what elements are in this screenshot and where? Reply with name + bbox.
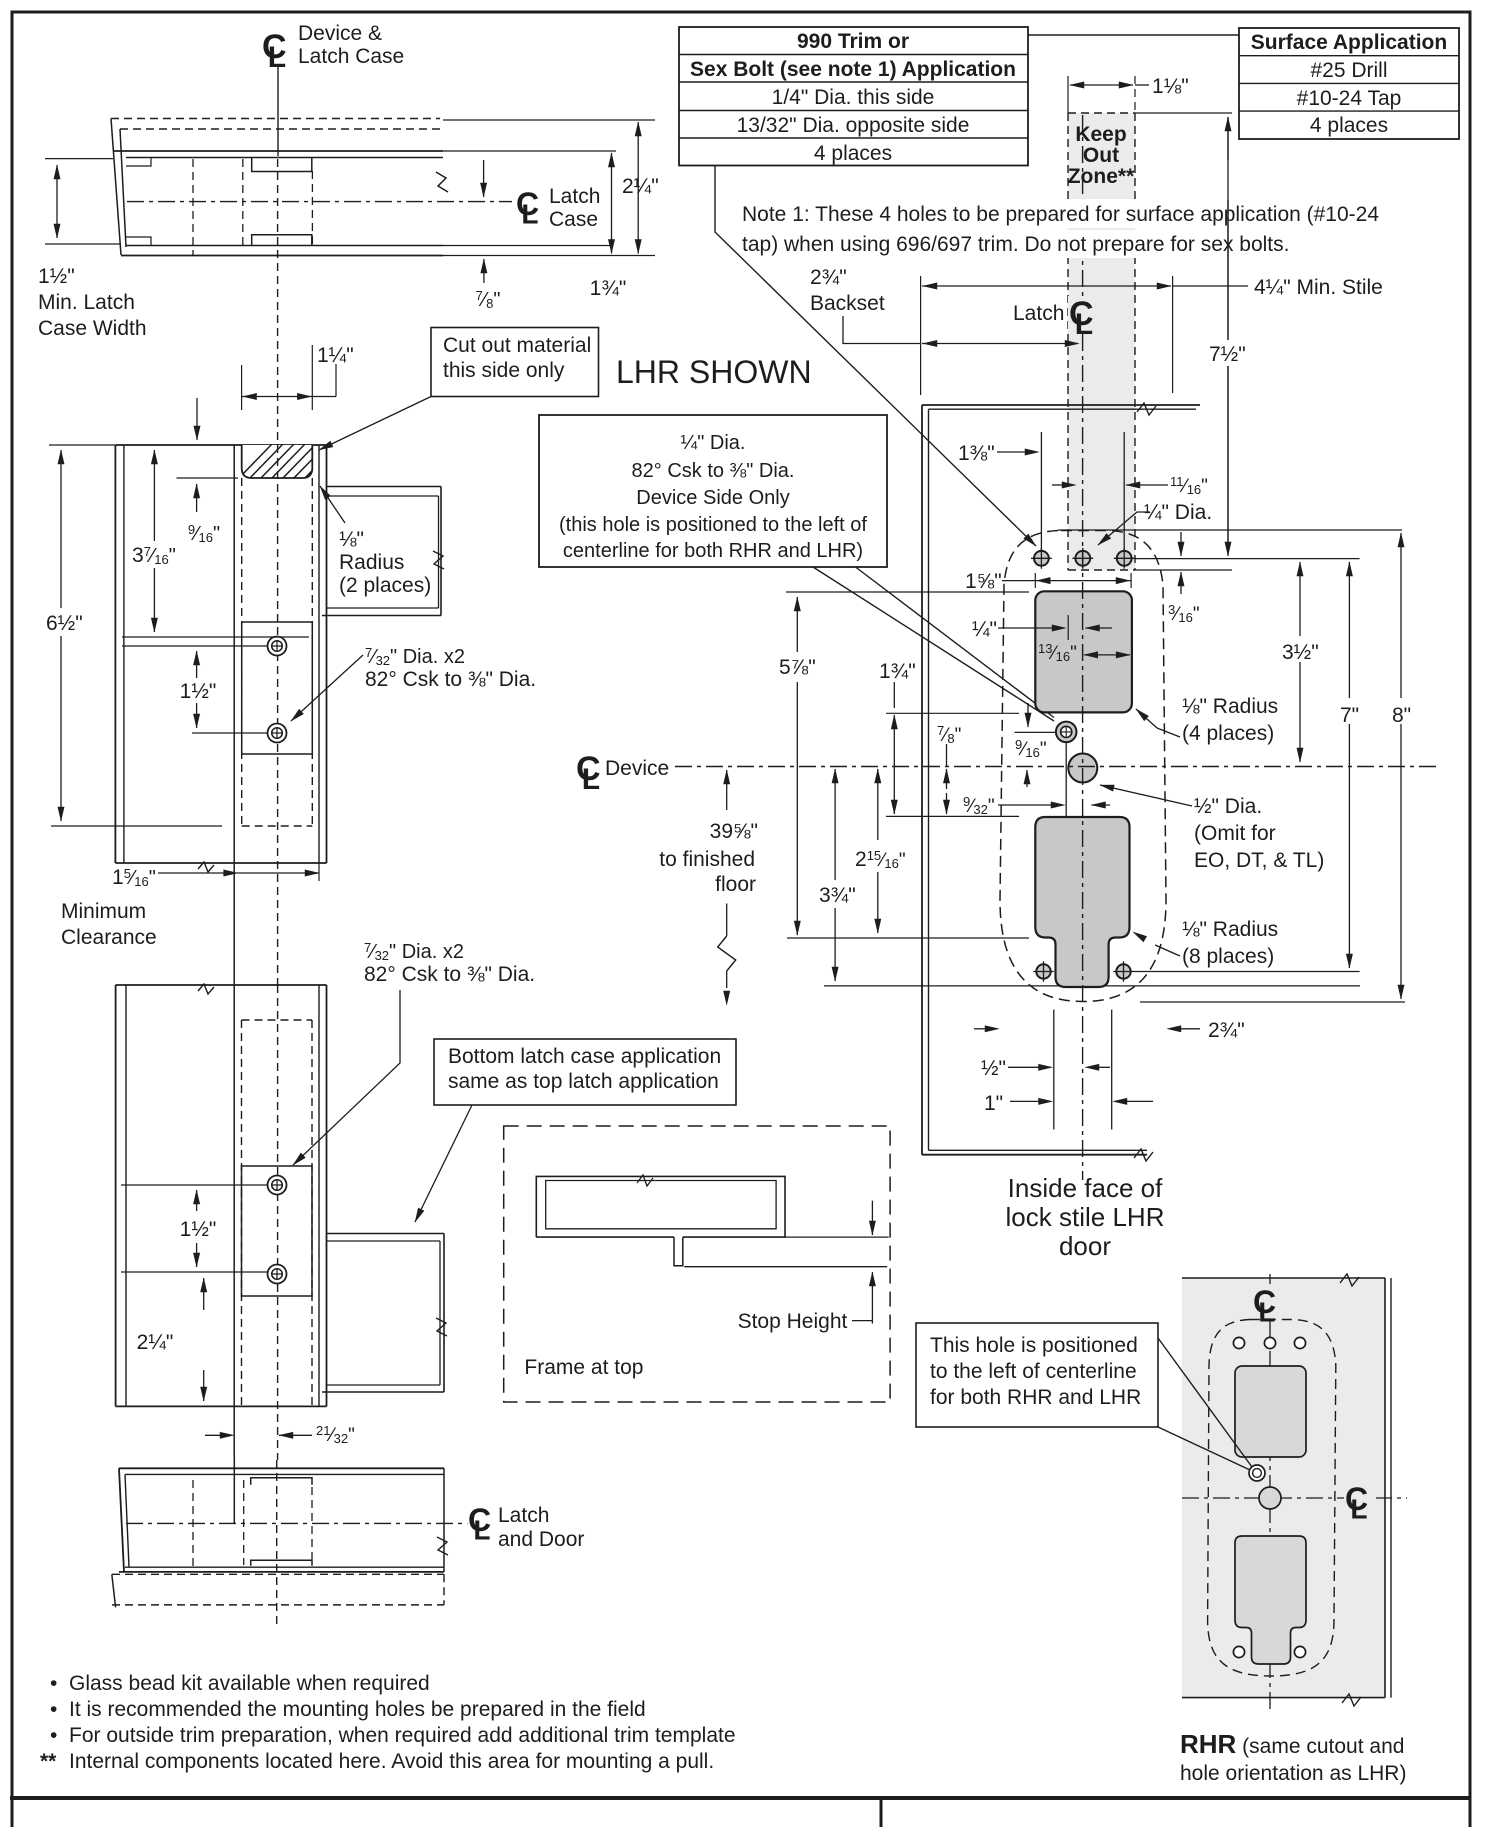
dim 2-15/16 — [877, 769, 879, 840]
svg-text:4 places: 4 places — [814, 142, 892, 165]
svg-text:13/32" Dia. opposite side: 13/32" Dia. opposite side — [737, 114, 970, 137]
dim 3/16 arrows — [1180, 532, 1182, 556]
svg-text:L: L — [521, 198, 538, 229]
bottom case solid body — [119, 1467, 444, 1469]
bottom case horizontal centerline — [126, 1522, 467, 1524]
dimension 1-1/2 door1 arrows — [196, 651, 198, 678]
door2 frame stop channel top lines — [327, 1233, 445, 1235]
stop height up arrow — [871, 1272, 873, 1324]
stop height reference line upper — [785, 1236, 889, 1238]
dimension 2-1/4 right — [637, 122, 639, 254]
door1 upper screw hole — [268, 637, 287, 656]
door2 inner face line — [233, 985, 235, 1456]
left extension lines for 1-1/2 width dim — [45, 158, 113, 160]
svg-text:⅛": ⅛" — [339, 528, 364, 551]
RHR lower pad T shape — [1235, 1536, 1306, 1664]
svg-text:L: L — [1075, 308, 1093, 341]
RHR vertical centerline — [1269, 1274, 1271, 1285]
top case vertical centerline dashed below — [277, 159, 279, 445]
line y938 (cutout bottom) — [787, 937, 1029, 939]
svg-text:centerline for both RHR and LH: centerline for both RHR and LHR) — [563, 540, 863, 562]
svg-text:(8 places): (8 places) — [1182, 945, 1274, 968]
svg-text:•: • — [50, 1724, 57, 1747]
label 3-3/4 — [812, 882, 860, 906]
svg-text:990 Trim or: 990 Trim or — [797, 30, 909, 53]
svg-text:Keep: Keep — [1075, 123, 1126, 146]
lower pad left screw hole — [1036, 964, 1050, 978]
9/16 up arrow — [1026, 770, 1028, 787]
top case break symbol right edge — [436, 172, 448, 192]
svg-text:#25 Drill: #25 Drill — [1310, 59, 1387, 82]
up arrow to case bottom (7/8 dim lower) — [483, 259, 485, 283]
svg-text:7⁄32" Dia. x2: 7⁄32" Dia. x2 — [364, 940, 464, 963]
extension line through upper hole — [122, 645, 267, 647]
frame stop channel bottom lines — [327, 607, 439, 609]
top mounting hole right — [1117, 551, 1132, 566]
svg-text:11⁄16": 11⁄16" — [1170, 474, 1208, 497]
Cut out material callout box — [431, 328, 599, 397]
extension line at dashed case bottom (6-1/2 ref) — [51, 825, 222, 827]
svg-text:**: ** — [40, 1750, 57, 1773]
leader 1/2 dia to big hole — [1100, 785, 1192, 806]
stile top break symbol — [1137, 403, 1156, 415]
dim 3-1/2 — [1299, 562, 1301, 600]
line y592 (5-7/8 top) — [786, 591, 1029, 593]
svg-text:9⁄32": 9⁄32" — [963, 794, 995, 817]
svg-text:9⁄16": 9⁄16" — [188, 522, 220, 545]
bottom case right edge — [443, 1468, 445, 1572]
arrow from 1/8 radius to cutout corner — [320, 486, 345, 523]
svg-text:Inside face of: Inside face of — [1008, 1173, 1163, 1203]
quarter dia callout box — [539, 415, 887, 567]
dim 1/2 arrows — [1008, 1066, 1040, 1068]
svg-text:1½": 1½" — [38, 265, 75, 288]
door2 upper screw hole — [268, 1176, 287, 1195]
svg-text:⅛" Radius: ⅛" Radius — [1182, 695, 1278, 718]
dimension 1-1/2 door2 arrows — [196, 1190, 198, 1211]
stile bottom break symbol — [1134, 1149, 1153, 1161]
keep out zone grey strip — [1068, 113, 1135, 570]
svg-text:7⁄8": 7⁄8" — [937, 723, 961, 746]
RHR CL symbol right — [1344, 1482, 1376, 1516]
frame bar outer outline — [536, 1176, 785, 1237]
svg-text:Case Width: Case Width — [38, 317, 147, 340]
svg-text:7⁄32" Dia. x2: 7⁄32" Dia. x2 — [365, 645, 465, 668]
lower pad right screw hole — [1116, 964, 1130, 978]
svg-text:1¾": 1¾" — [879, 660, 916, 683]
svg-text:L: L — [1350, 1493, 1367, 1524]
door2 left edge double lines — [115, 985, 117, 1406]
svg-text:Cut out material: Cut out material — [443, 334, 591, 357]
svg-text:this side only: this side only — [443, 359, 565, 382]
RHR center circle — [1259, 1487, 1281, 1509]
hatched cutout outline — [242, 445, 313, 478]
door1 inner face line — [233, 445, 235, 985]
bottom case latch bolt top rect — [251, 1478, 312, 1485]
dim 13/16 double arrow — [1084, 654, 1130, 656]
dim 1-5/8 extensions — [1034, 573, 1036, 588]
RHR ring hole — [1249, 1465, 1265, 1481]
svg-text:1/4" Dia. this side: 1/4" Dia. this side — [772, 86, 935, 109]
dim 11/16 arrows — [1052, 484, 1063, 486]
RHR top hole right — [1294, 1337, 1305, 1348]
leader 1/8 radius 8 places — [1155, 945, 1180, 956]
dim 1-1/8 arrows — [1070, 84, 1092, 86]
svg-text:3¾": 3¾" — [819, 884, 856, 907]
svg-text:Stop Height: Stop Height — [738, 1310, 848, 1333]
cutout bottom extension line — [177, 477, 239, 479]
top mounting hole center — [1075, 551, 1090, 566]
keep-out bottom extension line y570 — [1135, 569, 1232, 571]
svg-text:1¼": 1¼" — [317, 344, 354, 367]
dimension 3-7/16 arrows — [153, 450, 155, 541]
latch centerline symbol — [1068, 296, 1102, 334]
dim 7-1/2 line full — [1227, 117, 1229, 552]
svg-text:1⅛": 1⅛" — [1152, 75, 1189, 98]
door2 frame channel break — [436, 1318, 447, 1336]
svg-text:Latch Case: Latch Case — [298, 45, 404, 68]
svg-text:Sex Bolt (see note 1) Applicat: Sex Bolt (see note 1) Application — [690, 58, 1016, 81]
top case vertical centerline solid above case — [277, 64, 279, 156]
svg-text:15⁄16": 15⁄16" — [112, 866, 156, 889]
dim 2-3/4 bottom right arrow — [1167, 1028, 1180, 1030]
top case inner lip lines — [126, 157, 443, 159]
svg-text:lock stile LHR: lock stile LHR — [1006, 1202, 1165, 1232]
dimension 1-1/4 arrowheads — [243, 396, 254, 398]
note 1 text white backing bands — [740, 199, 1388, 228]
svg-text:It is recommended the mounting: It is recommended the mounting holes be … — [69, 1698, 646, 1721]
label 7-1/2 — [1206, 340, 1250, 366]
svg-text:L: L — [268, 41, 286, 74]
svg-text:Backset: Backset — [810, 292, 885, 315]
RHR panel top edge — [1182, 1277, 1385, 1279]
svg-text:Latch: Latch — [1013, 302, 1064, 325]
dim 7-1/2 arrows — [1227, 117, 1229, 160]
svg-text:(this hole is positioned to th: (this hole is positioned to the left of — [559, 514, 867, 536]
leader this hole upper — [1158, 1338, 1252, 1467]
svg-text:2¼": 2¼" — [622, 175, 659, 198]
door1 top edge — [115, 444, 326, 446]
dim 4-1/4 min stile line — [922, 285, 1171, 287]
door2 frame stop channel right edge — [443, 1234, 445, 1393]
door1 bottom edge with break — [115, 862, 326, 864]
1/4 dim extension segment — [1067, 615, 1069, 640]
bottom case break right — [437, 1537, 448, 1555]
keep out zone dashed borders — [1067, 113, 1069, 570]
svg-text:Note 1: These 4 holes to be pr: Note 1: These 4 holes to be prepared for… — [742, 203, 1379, 226]
svg-text:(Omit for: (Omit for — [1194, 822, 1276, 845]
svg-text:½" Dia.: ½" Dia. — [1194, 795, 1262, 818]
label 1-3/4 stile — [876, 658, 918, 682]
svg-text:Min. Latch: Min. Latch — [38, 291, 135, 314]
dim 1-5/16 arrows — [224, 872, 238, 874]
dim 39-5/8 lower line with break — [726, 904, 728, 937]
down arrow at 9/16 dim top — [196, 398, 198, 440]
bottom case hidden latch dashed verticals — [243, 1480, 245, 1565]
label 8 inch — [1388, 698, 1418, 724]
svg-text:1½": 1½" — [180, 1218, 217, 1241]
svg-text:Surface Application: Surface Application — [1251, 31, 1447, 54]
svg-text:same as top latch application: same as top latch application — [448, 1070, 719, 1093]
top mounting hole left — [1034, 551, 1049, 566]
latch vertical centerline dash-dot lower — [1082, 334, 1084, 1180]
top case horizontal centerline dash-dot — [127, 201, 512, 203]
svg-text:⅛" Radius: ⅛" Radius — [1182, 918, 1278, 941]
extension below door1 bottom — [318, 863, 320, 881]
dim 5-7/8 line — [796, 597, 798, 652]
svg-text:Clearance: Clearance — [61, 926, 157, 949]
svg-text:6½": 6½" — [46, 612, 83, 635]
top case inner corner tick bottom-left — [126, 237, 151, 245]
svg-text:Case: Case — [549, 208, 598, 231]
svg-text:1": 1" — [984, 1092, 1003, 1115]
svg-text:3⁄16": 3⁄16" — [1168, 602, 1200, 625]
9/16 down arrow — [1027, 703, 1029, 727]
device horizontal centerline dash-dot — [675, 766, 1440, 768]
svg-text:to finished: to finished — [659, 848, 755, 871]
line at 3-7/16 bottom — [122, 636, 309, 638]
svg-text:floor: floor — [715, 873, 756, 896]
dim 9/32 arrows — [998, 804, 1053, 806]
svg-text:1¾": 1¾" — [590, 277, 627, 300]
leader 1/4 dia to center hole — [1098, 512, 1150, 545]
dimension 1-3/4 right — [611, 153, 613, 254]
RHR lower screw hole right — [1294, 1646, 1305, 1657]
990 trim table frame — [679, 27, 1028, 166]
svg-text:7⁄8": 7⁄8" — [476, 288, 501, 311]
top reference line y530 — [1058, 529, 1402, 531]
top case hidden latch inner dashed vertical left — [192, 159, 194, 256]
svg-text:•: • — [50, 1698, 57, 1721]
door1 latch case dashed bottom — [242, 825, 313, 827]
RHR grey panel — [1182, 1278, 1385, 1698]
RHR panel bottom break — [1342, 1694, 1361, 1706]
lower grey pad T shape — [1035, 817, 1129, 987]
stop height reference line lower — [684, 1266, 887, 1268]
svg-text:Device: Device — [605, 757, 669, 780]
svg-text:¼": ¼" — [972, 618, 997, 641]
top case solid body rectangle — [113, 150, 443, 152]
top case latch bolt bottom rect — [252, 235, 312, 246]
svg-text:Internal components located he: Internal components located here. Avoid … — [69, 1750, 714, 1773]
svg-text:RHR (same cutout and: RHR (same cutout and — [1180, 1729, 1404, 1759]
label 3-1/2 — [1278, 636, 1324, 662]
svg-text:37⁄16": 37⁄16" — [132, 544, 176, 567]
svg-text:door: door — [1059, 1231, 1111, 1261]
bottom case vertical centerline dashed — [276, 1460, 278, 1626]
top case latch bolt top rect — [252, 158, 312, 172]
ring hole (1/4 dia csk) — [1056, 722, 1077, 743]
svg-text:EO, DT, & TL): EO, DT, & TL) — [1194, 849, 1324, 872]
svg-text:•: • — [50, 1672, 57, 1695]
svg-text:9⁄16": 9⁄16" — [1015, 737, 1047, 760]
svg-text:2¼": 2¼" — [137, 1331, 174, 1354]
svg-text:1⅜": 1⅜" — [958, 442, 995, 465]
door2 top break symbol — [198, 984, 214, 994]
svg-text:Bottom latch case application: Bottom latch case application — [448, 1045, 721, 1068]
connector line between tables — [1028, 34, 1239, 36]
RHR top hole left — [1233, 1337, 1244, 1348]
svg-text:This hole is positioned: This hole is positioned — [930, 1334, 1138, 1357]
svg-text:Device &: Device & — [298, 22, 382, 45]
svg-text:Latch: Latch — [549, 185, 600, 208]
dim 8 inch — [1400, 533, 1402, 595]
line y713 left of pad — [886, 712, 1019, 714]
RHR device dashed outline — [1208, 1320, 1336, 1677]
RHR lower screw hole left — [1233, 1646, 1244, 1657]
dim 1-1/8 extension lines — [1067, 76, 1069, 113]
svg-text:Latch: Latch — [498, 1504, 549, 1527]
door1 centerline dashed — [277, 445, 279, 985]
vertical line ring hole to pad zone — [1065, 742, 1067, 816]
dimension 1-1/2 min latch case width arrows — [56, 165, 58, 238]
leader from callout to ring hole upper — [856, 567, 1055, 718]
svg-text:215⁄16": 215⁄16" — [855, 848, 906, 871]
svg-text:Frame at top: Frame at top — [524, 1356, 643, 1379]
label 7 inch — [1336, 698, 1366, 724]
hole column line right — [1123, 432, 1125, 550]
leader from 990 table to left hole — [715, 166, 1036, 546]
ring hole extension line — [1015, 731, 1055, 733]
svg-text:and Door: and Door — [498, 1528, 584, 1551]
extension lines right of top case — [443, 119, 655, 121]
line at y113 right of keep-out — [1135, 112, 1232, 114]
svg-text:Out: Out — [1083, 144, 1119, 167]
backset elbow line — [843, 316, 920, 344]
svg-text:Radius: Radius — [339, 551, 404, 574]
door2 centerline dashed — [277, 985, 279, 1460]
leader from callout to ring hole lower — [813, 567, 1054, 721]
dim 39-5/8 up arrow — [726, 770, 728, 810]
door1 top dim extension to left — [49, 444, 115, 446]
svg-text:½": ½" — [981, 1057, 1006, 1080]
door2 top edge with break — [116, 984, 327, 986]
svg-text:LHR SHOWN: LHR SHOWN — [616, 354, 812, 390]
door1 mounting plate rect — [242, 622, 313, 754]
upper grey pad — [1035, 591, 1132, 712]
svg-text:tap) when using 696/697 trim.: tap) when using 696/697 trim. Do not pre… — [742, 233, 1289, 256]
svg-text:7": 7" — [1340, 704, 1359, 727]
latch vertical centerline dash-dot upper — [1082, 115, 1084, 296]
dim 1-3/8 arrow — [997, 451, 1026, 453]
hole row right line y558.6 — [1135, 558, 1360, 560]
door2 extension through lower hole — [121, 1271, 267, 1273]
svg-text:(4 places): (4 places) — [1182, 722, 1274, 745]
bottom title-block divider line — [10, 1796, 1471, 1800]
svg-text:Glass bead kit available when: Glass bead kit available when required — [69, 1672, 430, 1695]
bottom case latch bolt bottom rect — [251, 1560, 312, 1566]
title-block vertical divider — [880, 1798, 883, 1827]
door1 lower screw hole — [268, 724, 287, 743]
frame bar inner outline — [546, 1181, 776, 1229]
leader 7/32 to lower hole door1 — [291, 655, 363, 721]
dim 1-5/16 stem — [158, 872, 238, 874]
label 2-15/16 — [851, 845, 909, 870]
min stile extension lines — [920, 276, 922, 395]
svg-text:L: L — [473, 1514, 490, 1545]
surface application table frame — [1239, 28, 1459, 139]
door2 bottom edge — [116, 1405, 327, 1407]
leader 7/32 door2 to upper hole — [293, 990, 400, 1165]
dim 1-3/4 stile — [893, 680, 895, 708]
door2 mounting plate rect — [242, 1166, 313, 1296]
dim 2-3/4 backset arrows — [922, 343, 1078, 345]
svg-text:8": 8" — [1392, 704, 1411, 727]
svg-text:for both RHR and LHR: for both RHR and LHR — [930, 1386, 1141, 1409]
dim 7 inch — [1348, 562, 1350, 600]
dimension 6-1/2 arrows — [60, 450, 62, 608]
svg-text:2¾": 2¾" — [810, 266, 847, 289]
arrow from pad to 1/8 radius 4 places — [1136, 709, 1157, 728]
top case hidden latch dashed verticals — [242, 159, 244, 248]
svg-text:to the left of centerline: to the left of centerline — [930, 1360, 1137, 1383]
dim 7/8 stile — [946, 744, 948, 766]
This hole callout box — [916, 1323, 1158, 1427]
half/one inch vertical lines — [1053, 1010, 1055, 1130]
svg-text:4¼" Min. Stile: 4¼" Min. Stile — [1254, 276, 1383, 299]
svg-text:Zone**: Zone** — [1068, 165, 1135, 188]
stop height down arrow — [871, 1201, 873, 1235]
svg-text:#10-24 Tap: #10-24 Tap — [1297, 87, 1402, 110]
stile bottom edge lines — [922, 1154, 1147, 1156]
dimension 2-1/4 door2 arrows — [203, 1278, 205, 1310]
dimension 21/32 arrows — [205, 1434, 222, 1436]
top case outer dashed housing top lines — [111, 118, 440, 120]
hatch lines in cutout — [238, 444, 349, 479]
bottom case dashed lower housing — [112, 1574, 116, 1607]
frame stop tab — [674, 1237, 683, 1266]
door1 latch case dashed sides — [241, 478, 243, 826]
svg-text:1⅝": 1⅝" — [965, 570, 1002, 593]
top case left slanted end lines — [111, 119, 121, 256]
door1 left edge double lines — [114, 445, 116, 863]
RHR top hole center — [1264, 1337, 1275, 1348]
RHR panel right double edge — [1384, 1278, 1386, 1698]
door2 frame stop channel bottom lines — [327, 1384, 441, 1386]
svg-text:7½": 7½" — [1209, 343, 1246, 366]
svg-text:(2 places): (2 places) — [339, 574, 431, 597]
door2 lower screw hole — [268, 1265, 287, 1284]
svg-text:82° Csk to ⅜" Dia.: 82° Csk to ⅜" Dia. — [632, 460, 795, 482]
svg-text:82° Csk to ⅜" Dia.: 82° Csk to ⅜" Dia. — [365, 668, 536, 691]
frame channel break symbol — [433, 551, 444, 569]
svg-text:39⅝": 39⅝" — [710, 820, 758, 843]
surface application row lines — [1239, 55, 1459, 57]
down arrow to latch case CL (7/8 dim upper) — [483, 160, 485, 197]
door1 right edge double lines — [318, 445, 320, 863]
svg-text:hole orientation as LHR): hole orientation as LHR) — [1180, 1762, 1406, 1785]
line y985.9 (3-3/4 bottom reference) — [824, 985, 1360, 987]
stile top edge lines — [922, 404, 1200, 406]
svg-text:¼" Dia.: ¼" Dia. — [1144, 501, 1212, 524]
svg-text:1½": 1½" — [180, 680, 217, 703]
leader cut out material to cutout — [319, 397, 431, 451]
svg-text:Minimum: Minimum — [61, 900, 146, 923]
RHR panel bottom edge — [1182, 1697, 1385, 1699]
RHR horizontal centerline — [1182, 1497, 1345, 1499]
svg-text:L: L — [582, 763, 600, 796]
device dashed outline — [1000, 531, 1166, 1002]
svg-text:For outside trim preparation,: For outside trim preparation, when requi… — [69, 1724, 736, 1747]
svg-text:L: L — [1258, 1296, 1275, 1327]
dimension 1-1/4 line — [242, 396, 336, 398]
big half-inch hole grey circle — [1068, 754, 1097, 783]
svg-text:4 places: 4 places — [1310, 114, 1388, 137]
stile left edge double lines — [921, 405, 923, 1155]
RHR upper pad — [1235, 1366, 1306, 1457]
990 trim table row lines — [679, 54, 1028, 56]
svg-text:3½": 3½" — [1282, 641, 1319, 664]
